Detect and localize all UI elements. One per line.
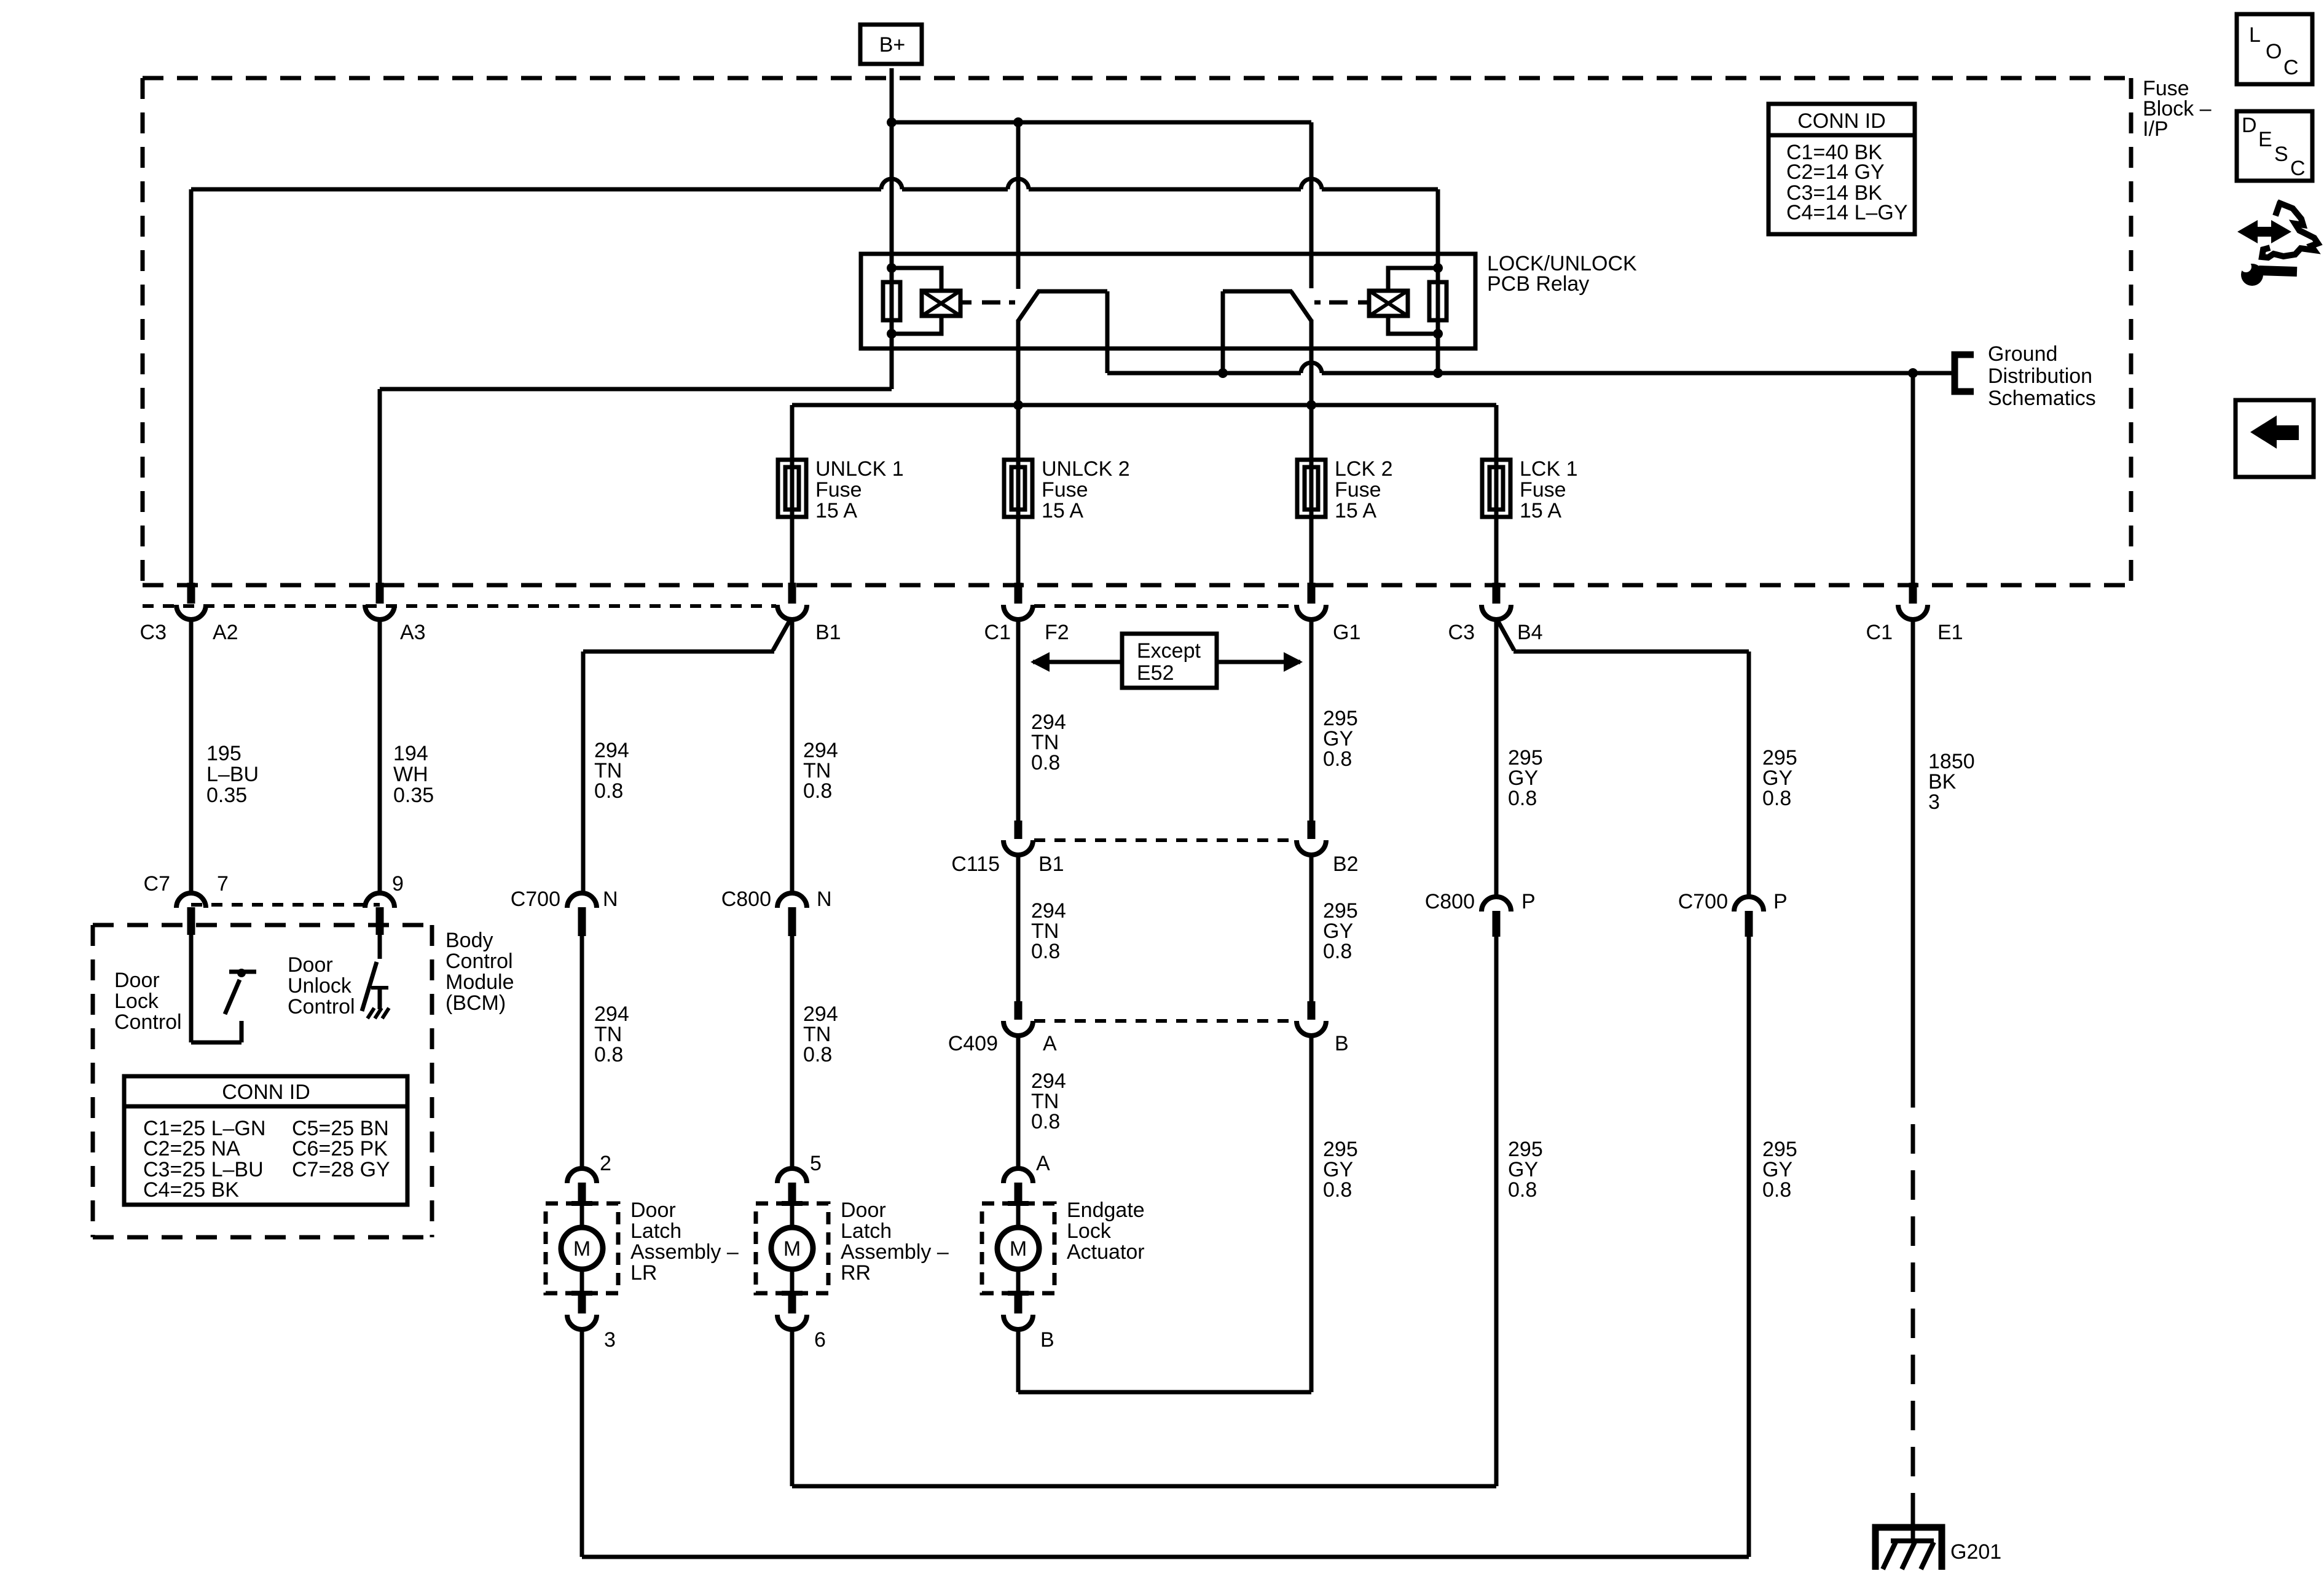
svg-text:L: L: [2249, 23, 2261, 47]
svg-text:B: B: [1335, 1032, 1349, 1055]
wire 294 TN 0.8 endgate: [1016, 1034, 1021, 1168]
wire endgate B loop: [1016, 1328, 1021, 1392]
fuse UNLCK 1 15 A: [778, 460, 806, 517]
svg-text:0.8: 0.8: [594, 779, 623, 803]
svg-text:Lock: Lock: [114, 990, 159, 1013]
svg-text:0.8: 0.8: [1323, 940, 1352, 963]
svg-text:Fuse: Fuse: [815, 478, 862, 502]
svg-text:CONN ID: CONN ID: [222, 1081, 310, 1104]
svg-text:UNLCK 2: UNLCK 2: [1042, 457, 1130, 481]
wire 295 GY 0.8 G1 upper: [1309, 618, 1314, 821]
node relay left coil top: [887, 263, 897, 273]
svg-text:0.8: 0.8: [803, 1043, 832, 1066]
svg-text:C: C: [2283, 56, 2299, 79]
connector A3: [376, 583, 384, 604]
svg-text:P: P: [1521, 890, 1536, 913]
wire 295 GY 0.8 G1 mid: [1309, 854, 1314, 1001]
svg-text:0.8: 0.8: [1508, 787, 1537, 810]
svg-text:D: D: [2242, 114, 2257, 137]
svg-text:C3: C3: [1448, 621, 1475, 644]
svg-text:A2: A2: [213, 621, 238, 644]
icon DESC box: [2237, 111, 2312, 181]
svg-text:Endgate: Endgate: [1067, 1199, 1145, 1222]
node relay right coil to rail: [1433, 368, 1443, 378]
wire 194 WH 0.35: [378, 389, 382, 583]
wire B1 diagonal to LR column: [773, 621, 790, 650]
svg-text:(BCM): (BCM): [446, 991, 506, 1015]
icon wrench: [2241, 264, 2263, 286]
svg-text:Door: Door: [288, 953, 333, 977]
connector pin 3: [571, 1291, 592, 1296]
svg-text:Ground: Ground: [1988, 342, 2057, 366]
svg-text:3: 3: [604, 1328, 616, 1352]
svg-text:LR: LR: [630, 1261, 657, 1285]
svg-text:0.8: 0.8: [1323, 747, 1352, 771]
relay left coil actuation dashes: [982, 301, 1015, 305]
motor M Door Latch Assembly RR: [771, 1227, 813, 1269]
svg-text:Fuse: Fuse: [1520, 478, 1566, 502]
relay right coil winding: [1388, 268, 1438, 291]
icon LOC box: [2237, 14, 2312, 84]
relay switch 1 movable arm: [1018, 291, 1038, 321]
node fuse rail at LCK 2: [1306, 400, 1316, 410]
svg-text:15 A: 15 A: [815, 499, 857, 522]
connector C115 B2: [1308, 821, 1316, 839]
svg-text:M: M: [1010, 1237, 1027, 1261]
svg-text:M: M: [573, 1237, 591, 1261]
wire 294 TN 0.8 RR lower: [790, 936, 795, 1168]
connector C800 P: [1482, 897, 1511, 912]
svg-text:C700: C700: [1678, 890, 1728, 913]
svg-text:0.8: 0.8: [1031, 1110, 1060, 1133]
svg-text:Fuse: Fuse: [1335, 478, 1381, 502]
in-line connector dotted line left: [143, 604, 776, 608]
svg-text:0.8: 0.8: [1762, 787, 1791, 810]
svg-text:E1: E1: [1937, 621, 1963, 644]
svg-text:C: C: [2290, 157, 2306, 180]
svg-text:2: 2: [600, 1152, 611, 1175]
wire fuse rail H5: [792, 403, 1496, 408]
connector pin 5: [777, 1168, 807, 1183]
node fuse rail at UNLCK 2: [1013, 400, 1023, 410]
connector pin 9: [365, 893, 395, 908]
wire B4 diagonal to C700 P column: [1498, 621, 1514, 650]
svg-text:B4: B4: [1517, 621, 1543, 644]
svg-text:A3: A3: [400, 621, 426, 644]
in-line connector dotted line center: [1034, 604, 1297, 608]
svg-text:Actuator: Actuator: [1067, 1240, 1145, 1264]
svg-text:0.8: 0.8: [1031, 940, 1060, 963]
relay switch 2 fixed contact from B+: [1309, 122, 1314, 288]
svg-text:Latch: Latch: [630, 1219, 681, 1243]
node B+ junction at relay coil 1: [887, 117, 897, 127]
svg-text:C7: C7: [144, 872, 170, 896]
svg-text:Control: Control: [288, 995, 355, 1018]
svg-text:B1: B1: [815, 621, 841, 644]
wire switch 2 NC contact to H4: [1223, 289, 1292, 294]
svg-text:5: 5: [810, 1152, 822, 1175]
svg-text:Assembly –: Assembly –: [630, 1240, 739, 1264]
bracket to Ground Distribution Schematics: [1955, 355, 1974, 392]
wire switch 1 pivot down to UNLCK 2 fuse: [1016, 320, 1021, 583]
connector pin B: [1008, 1291, 1029, 1296]
wire 195 L-BU 0.35: [189, 618, 194, 892]
svg-text:9: 9: [392, 872, 404, 896]
svg-text:N: N: [817, 888, 832, 911]
wire switch 2 pivot down to LCK 2 fuse: [1309, 320, 1314, 583]
wire 295 GY 0.8 C700P lower: [1747, 937, 1751, 1557]
icon vehicle double arrow: [2237, 220, 2291, 243]
connector pin 6: [782, 1291, 803, 1296]
wire B4 down to C800 P: [1494, 517, 1499, 583]
wire NC ground rail H4: [1107, 371, 1301, 376]
fuse UNLCK 2 15 A: [1004, 460, 1032, 517]
svg-text:Schematics: Schematics: [1988, 387, 2096, 410]
svg-text:L–BU: L–BU: [206, 763, 259, 786]
svg-text:Door: Door: [841, 1199, 886, 1222]
wire B1 straight down to RR: [790, 517, 795, 583]
node relay right coil top: [1433, 263, 1443, 273]
svg-text:Module: Module: [446, 971, 514, 994]
svg-text:C1: C1: [984, 621, 1011, 644]
svg-text:UNLCK 1: UNLCK 1: [815, 457, 904, 481]
svg-text:G201: G201: [1950, 1540, 2001, 1564]
connector B1: [788, 583, 796, 604]
svg-text:Unlock: Unlock: [288, 974, 352, 998]
svg-text:N: N: [603, 888, 618, 911]
svg-text:C2=14 GY: C2=14 GY: [1786, 160, 1885, 184]
fuse LCK 1 15 A: [1482, 460, 1510, 517]
connector pin 2: [567, 1168, 597, 1183]
relay right coil actuation dashes: [1314, 301, 1348, 305]
svg-text:0.8: 0.8: [1031, 751, 1060, 774]
relay switch 1 fixed contact from B+: [1016, 122, 1021, 289]
Body Control Module (BCM) dashed box: [93, 923, 432, 927]
connector C700 N: [567, 893, 597, 908]
svg-text:A: A: [1036, 1152, 1050, 1175]
svg-text:0.8: 0.8: [1762, 1178, 1791, 1202]
motor M Door Latch Assembly LR: [561, 1227, 603, 1269]
svg-text:15 A: 15 A: [1042, 499, 1083, 522]
svg-text:Door: Door: [630, 1199, 676, 1222]
wire 295 GY 0.8 C800P lower: [1494, 937, 1499, 1486]
fuse block I/P dashed outline: [143, 76, 2131, 81]
svg-text:E: E: [2258, 128, 2272, 151]
icon back arrow box: [2236, 400, 2314, 477]
chassis ground inside BCM: [367, 1008, 374, 1018]
connector C409 A: [1015, 1001, 1023, 1020]
wire B+ down to relay: [890, 68, 894, 282]
CONN ID table BCM: [124, 1076, 407, 1205]
connector C800 N: [777, 893, 807, 908]
connector C7 pin 7: [176, 893, 206, 908]
connector pin A: [1003, 1168, 1033, 1183]
wire 1850 BK dashed continuation: [1911, 1078, 1915, 1513]
svg-text:LCK 1: LCK 1: [1520, 457, 1578, 481]
svg-text:15 A: 15 A: [1335, 499, 1376, 522]
svg-text:Except: Except: [1137, 639, 1201, 663]
connector C1 E1: [1909, 583, 1917, 604]
svg-text:LCK 2: LCK 2: [1335, 457, 1393, 481]
switch Door Unlock Control: [378, 935, 382, 959]
svg-text:B2: B2: [1333, 853, 1359, 876]
svg-text:C700: C700: [511, 888, 560, 911]
svg-text:A: A: [1043, 1032, 1057, 1055]
svg-text:PCB Relay: PCB Relay: [1487, 272, 1589, 296]
svg-text:I/P: I/P: [2143, 117, 2169, 141]
callout Except E52: [1033, 660, 1122, 664]
relay left coil resistor: [890, 282, 894, 389]
svg-text:C115: C115: [951, 853, 1000, 876]
wire LR 3 loop to C700 P column: [580, 1328, 584, 1557]
svg-text:Lock: Lock: [1067, 1219, 1112, 1243]
svg-text:C409: C409: [948, 1032, 998, 1055]
svg-text:C4=25 BK: C4=25 BK: [143, 1178, 239, 1202]
connector C700 P: [1734, 897, 1764, 912]
svg-text:S: S: [2274, 143, 2288, 166]
connector C409 B: [1308, 1001, 1316, 1020]
relay LOCK/UNLOCK PCB Relay box: [861, 254, 1475, 348]
svg-text:194: 194: [393, 742, 428, 765]
wire RR 6 loop to C800 P column: [790, 1328, 795, 1486]
fuse LCK 2 15 A: [1297, 460, 1325, 517]
wire 294 TN 0.8 LR lower: [580, 936, 584, 1168]
svg-text:0.35: 0.35: [206, 784, 247, 807]
connector C3 B4: [1493, 583, 1501, 604]
svg-text:3: 3: [1928, 790, 1940, 814]
svg-text:195: 195: [206, 742, 241, 765]
wire 295 GY 0.8 to endgate B loop: [1309, 1034, 1314, 1392]
connector C115 B1: [1015, 821, 1023, 839]
wire B+ bus H1: [892, 120, 1311, 125]
svg-text:0.35: 0.35: [393, 784, 434, 807]
BCM pin dotted line: [191, 903, 380, 907]
svg-text:Assembly –: Assembly –: [841, 1240, 949, 1264]
svg-text:M: M: [783, 1237, 801, 1261]
svg-text:C800: C800: [1425, 890, 1475, 913]
connector C3 A2: [187, 583, 195, 604]
svg-text:0.8: 0.8: [803, 779, 832, 803]
node relay left coil bottom: [887, 329, 897, 339]
svg-text:C3: C3: [140, 621, 167, 644]
wire switch 1 NC contact to H4: [1037, 289, 1107, 294]
svg-text:Body: Body: [446, 929, 493, 952]
ground G201: [1875, 1527, 1942, 1570]
wire 294 TN 0.8 F2 mid: [1016, 854, 1021, 1001]
node B+ junction at switch 1: [1013, 117, 1023, 127]
svg-text:G1: G1: [1333, 621, 1360, 644]
svg-text:Control: Control: [114, 1010, 182, 1034]
node relay right coil bottom: [1433, 329, 1443, 339]
svg-text:6: 6: [814, 1328, 826, 1352]
svg-text:C4=14 L–GY: C4=14 L–GY: [1786, 201, 1908, 224]
switch Door Lock Control: [189, 935, 194, 1042]
relay switch 2 movable arm: [1291, 291, 1311, 321]
svg-text:WH: WH: [393, 763, 428, 786]
connector G1: [1308, 583, 1316, 604]
svg-text:0.8: 0.8: [1508, 1178, 1537, 1202]
svg-text:O: O: [2266, 40, 2282, 63]
CONN ID table fuse block: [1769, 104, 1915, 234]
svg-text:B: B: [1040, 1328, 1054, 1352]
svg-text:CONN ID: CONN ID: [1797, 109, 1886, 133]
C409 dotted link: [1034, 1019, 1297, 1023]
icon vehicle outline: [2262, 202, 2318, 258]
svg-text:Control: Control: [446, 950, 513, 973]
svg-text:B+: B+: [879, 33, 906, 57]
node switch 2 NC to rail: [1218, 368, 1228, 378]
svg-text:C7=28 GY: C7=28 GY: [292, 1158, 390, 1181]
svg-text:0.8: 0.8: [1323, 1178, 1352, 1202]
wire A2 riser to H2: [189, 189, 194, 583]
svg-text:0.8: 0.8: [594, 1043, 623, 1066]
svg-text:RR: RR: [841, 1261, 871, 1285]
svg-text:Fuse: Fuse: [1042, 478, 1088, 502]
node ground rail to E1: [1908, 368, 1918, 378]
svg-text:Latch: Latch: [841, 1219, 892, 1243]
svg-text:Distribution: Distribution: [1988, 364, 2092, 388]
svg-text:Door: Door: [114, 969, 160, 992]
svg-text:F2: F2: [1045, 621, 1069, 644]
wire 1850 BK 3: [1911, 373, 1915, 583]
svg-text:C2=25 NA: C2=25 NA: [143, 1137, 240, 1160]
svg-text:C6=25 PK: C6=25 PK: [292, 1137, 388, 1160]
svg-text:C800: C800: [721, 888, 771, 911]
svg-text:P: P: [1773, 890, 1788, 913]
battery feed B+: [860, 25, 922, 64]
svg-text:B1: B1: [1038, 853, 1064, 876]
wire A3 to relay left coil: [380, 387, 892, 392]
relay left coil winding: [892, 268, 941, 291]
svg-text:7: 7: [217, 872, 229, 896]
C115 dotted link: [1034, 838, 1297, 842]
wire H2 to right relay coil with hops: [191, 187, 881, 192]
wire 294 TN 0.8 F2 upper: [1016, 618, 1021, 821]
relay right coil resistor: [1436, 282, 1440, 373]
svg-text:15 A: 15 A: [1520, 499, 1561, 522]
svg-text:C1: C1: [1866, 621, 1893, 644]
motor M Endgate Lock Actuator: [997, 1227, 1039, 1269]
svg-text:E52: E52: [1137, 661, 1174, 685]
connector C1 F2: [1015, 583, 1023, 604]
